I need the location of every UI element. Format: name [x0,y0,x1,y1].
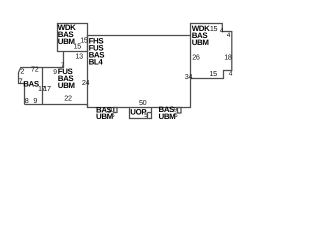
svg-text:34: 34 [185,72,193,81]
right addition outline WDK/BAS/UBM [191,24,232,79]
svg-text:50: 50 [139,98,147,107]
svg-text:26: 26 [192,53,200,62]
svg-text:7: 7 [19,76,23,85]
svg-text:8: 8 [25,96,29,105]
svg-text:17: 17 [43,84,51,93]
svg-text:18: 18 [224,53,232,62]
svg-text:15: 15 [210,24,218,33]
svg-text:9: 9 [33,96,37,105]
svg-text:2: 2 [35,65,39,74]
main house outline FHS/FUS/BAS/BL4 [88,36,191,108]
svg-text:BAS: BAS [23,79,39,88]
svg-text:2: 2 [20,67,24,76]
porch stub 1 [114,108,117,113]
left BAS building outline [19,68,43,105]
svg-text:BL4: BL4 [89,58,104,67]
middle section outline FUS/BAS/UBM [25,52,88,108]
svg-text:15: 15 [74,42,82,51]
open porch UOP outline [130,108,152,119]
svg-text:9: 9 [53,69,57,76]
svg-text:22: 22 [64,93,72,102]
svg-text:13: 13 [76,51,84,60]
svg-text:UBM: UBM [192,38,210,47]
svg-text:15: 15 [210,69,218,78]
deck section outline WDK/BAS/UBM [58,24,88,52]
svg-text:24: 24 [82,78,90,87]
porch stub 3 [178,108,182,114]
svg-text:UBM: UBM [58,81,76,90]
svg-text:15: 15 [80,36,88,45]
